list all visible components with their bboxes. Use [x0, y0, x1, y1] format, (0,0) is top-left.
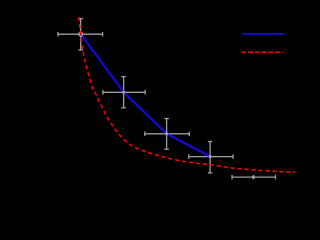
marker point 1 (open circle)	[79, 32, 83, 36]
legend line 1 (blue)	[242, 33, 284, 35]
marker point 2	[122, 91, 125, 94]
blue data line	[81, 34, 210, 156]
marker point 4	[209, 155, 212, 158]
error bars point 5	[232, 175, 276, 180]
error bars point 3	[145, 119, 190, 150]
error bars point 4	[189, 142, 233, 173]
marker point 3	[165, 133, 168, 136]
legend line 2 (red dashed)	[241, 51, 282, 53]
error bars point 1	[58, 19, 103, 51]
error bars point 2	[103, 77, 145, 108]
marker point 5	[252, 176, 255, 179]
red dashed fit curve	[79, 17, 295, 172]
